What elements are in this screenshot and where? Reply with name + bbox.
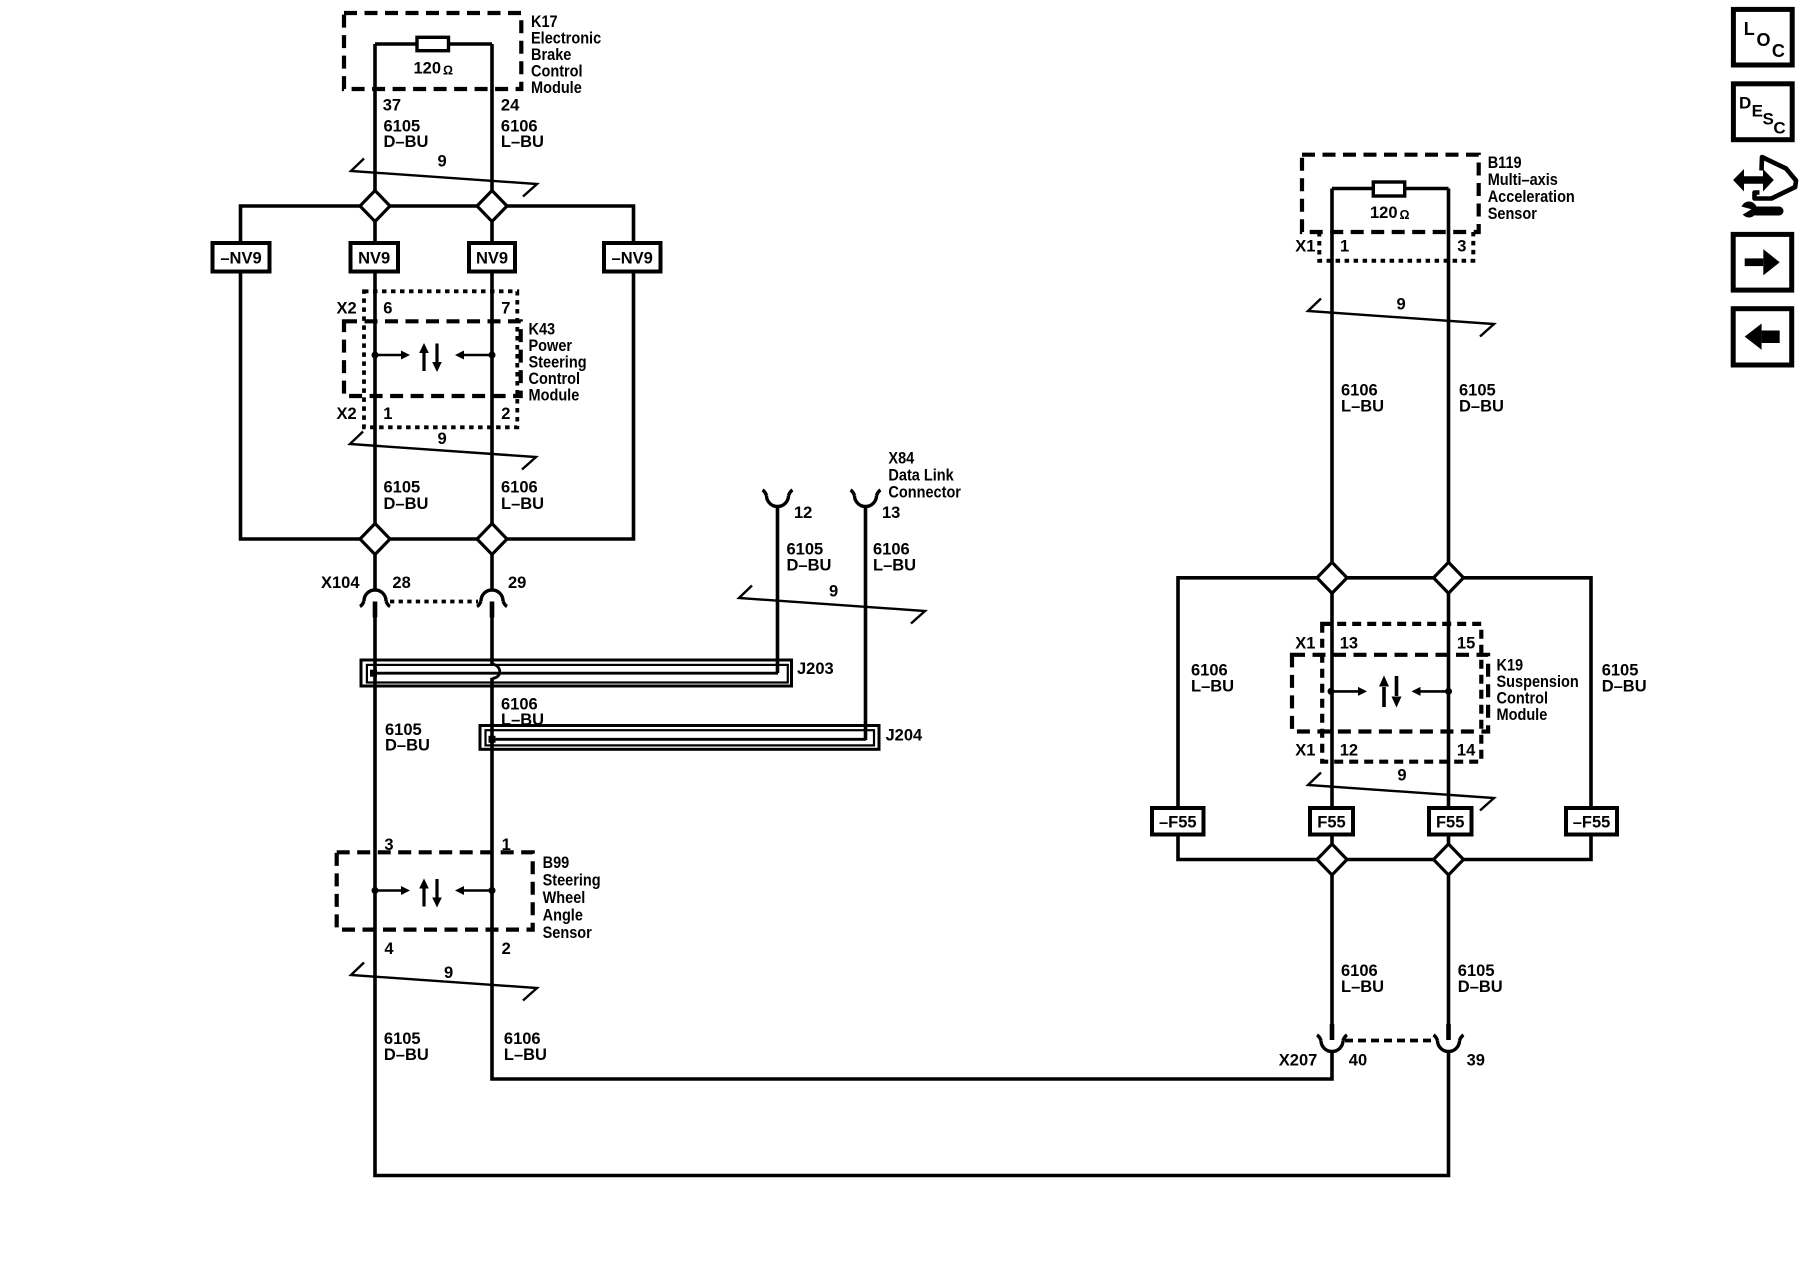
svg-text:X104: X104 (321, 574, 360, 592)
svg-text:Connector: Connector (888, 484, 961, 502)
NV9 connector boxes row (213, 243, 661, 272)
svg-text:6105: 6105 (384, 479, 421, 497)
svg-text:24: 24 (501, 96, 520, 114)
svg-text:X207: X207 (1279, 1052, 1318, 1070)
connector X104 pin28 female arc (360, 590, 507, 607)
sidebar icon vehicle with double arrow and wrench (1733, 157, 1796, 218)
svg-text:9: 9 (829, 583, 838, 601)
diamond node row1 right on 6105 (1434, 562, 1464, 593)
svg-text:D–BU: D–BU (384, 1046, 429, 1064)
svg-text:28: 28 (392, 574, 410, 592)
resistor 120ohm B119 (1373, 182, 1404, 196)
twisted pair marker TP3 (351, 963, 537, 1001)
svg-text:D–BU: D–BU (1458, 978, 1503, 996)
svg-text:Acceleration: Acceleration (1488, 188, 1575, 206)
diamond node row1 right on 6106 (1317, 562, 1347, 593)
module B119 dashed box (1302, 155, 1479, 232)
svg-text:2: 2 (502, 940, 511, 958)
svg-text:Steering: Steering (543, 872, 601, 890)
module K17 dashed box (344, 13, 521, 89)
connector X104 pin28 male pin (373, 602, 378, 618)
wire right outer loop F55 branches (1178, 578, 1591, 860)
connector X207 pin40 female arc (1317, 1035, 1464, 1052)
K43 internal arrows (372, 343, 496, 372)
sidebar icon DESC box (1733, 84, 1792, 140)
svg-text:29: 29 (508, 574, 526, 592)
svg-text:9: 9 (1397, 767, 1406, 785)
wire B119 resistor horizontal (1332, 187, 1449, 191)
svg-text:F55: F55 (1317, 814, 1345, 832)
svg-text:9: 9 (438, 430, 447, 448)
svg-text:Data Link: Data Link (888, 467, 954, 485)
svg-text:13: 13 (882, 504, 900, 522)
svg-text:D–BU: D–BU (787, 556, 832, 574)
twisted pair marker TP4 (739, 586, 925, 624)
svg-text:15: 15 (1457, 635, 1475, 653)
svg-text:37: 37 (383, 96, 401, 114)
svg-text:D–BU: D–BU (384, 133, 429, 151)
svg-text:Wheel: Wheel (543, 889, 586, 907)
svg-text:S: S (1763, 110, 1774, 129)
svg-text:D: D (1739, 94, 1751, 113)
svg-text:9: 9 (438, 153, 447, 171)
svg-text:3: 3 (384, 836, 393, 854)
svg-text:X2: X2 (337, 405, 357, 423)
connector X207 pin39 female arc (1438, 1041, 1460, 1052)
resistor 120ohm K17 (417, 37, 449, 50)
junction dot J204 on 6106 (489, 736, 496, 743)
K19 internal arrows (1328, 676, 1453, 708)
B99 internal arrows (372, 879, 496, 908)
svg-text:D–BU: D–BU (384, 495, 429, 513)
wire 6106 left vertical (490, 44, 494, 590)
svg-text:Module: Module (531, 79, 582, 97)
svg-text:Power: Power (529, 337, 573, 355)
svg-text:Control: Control (531, 63, 583, 81)
svg-text:B99: B99 (543, 854, 570, 872)
svg-text:L–BU: L–BU (501, 133, 544, 151)
svg-text:Control: Control (529, 370, 581, 388)
svg-text:9: 9 (444, 964, 453, 982)
sidebar icon LOC box (1733, 9, 1792, 65)
svg-text:Electronic: Electronic (531, 30, 601, 48)
svg-text:L–BU: L–BU (1341, 398, 1384, 416)
wire left outer loop NV9 branches (241, 206, 634, 539)
wire 6105 right vertical (1447, 189, 1451, 1025)
svg-text:–F55: –F55 (1573, 814, 1611, 832)
K17 labels (321, 13, 1647, 1069)
connector X104 pin29 male pin (490, 602, 495, 618)
svg-text:Control: Control (1497, 689, 1549, 707)
module B99 dashed box (337, 852, 533, 929)
junction dot J203 on 6105 (370, 670, 377, 677)
splice J204 (480, 726, 879, 750)
svg-text:NV9: NV9 (358, 250, 390, 268)
hop of 6106 wire over J203 bus (492, 664, 500, 678)
svg-text:6106: 6106 (501, 479, 538, 497)
wire X84 pin12 drop (776, 506, 780, 674)
wire K17 resistor horizontal (375, 42, 492, 46)
twisted pair marker TP6 (1308, 773, 1494, 811)
connector X207 pin40 male pin (1330, 1024, 1335, 1040)
svg-text:3: 3 (1457, 237, 1466, 255)
twisted pair marker TP1 (350, 159, 1494, 1001)
connector X207 pin39 male pin (1446, 1024, 1451, 1040)
module K43 dotted connector box (364, 291, 517, 427)
sidebar icon left-arrow box (1733, 309, 1792, 365)
svg-text:39: 39 (1467, 1052, 1485, 1070)
svg-text:L–BU: L–BU (1191, 678, 1234, 696)
svg-text:4: 4 (384, 940, 394, 958)
svg-text:1: 1 (383, 405, 392, 423)
diamond node row2 left on 6105 (360, 524, 390, 555)
svg-text:L: L (1744, 19, 1755, 39)
svg-text:Module: Module (1497, 706, 1548, 724)
svg-text:2: 2 (501, 405, 510, 423)
twisted pair marker TP2 (350, 432, 536, 470)
svg-text:Module: Module (529, 387, 580, 405)
svg-text:K43: K43 (529, 321, 556, 339)
svg-text:–NV9: –NV9 (612, 250, 653, 268)
svg-text:D–BU: D–BU (1602, 678, 1647, 696)
svg-text:E: E (1752, 102, 1763, 121)
diamond node row1 left on 6105 (360, 191, 1464, 876)
svg-text:9: 9 (1397, 296, 1406, 314)
svg-text:–F55: –F55 (1159, 814, 1197, 832)
diamond node row2 left on 6106 (477, 524, 507, 555)
F55 fuse boxes row (1152, 808, 1617, 835)
splice J203 (361, 660, 792, 686)
wire 6106 right vertical (1330, 189, 1334, 1025)
svg-text:Multi–axis: Multi–axis (1488, 171, 1558, 189)
svg-text:Brake: Brake (531, 46, 572, 64)
svg-text:Steering: Steering (529, 354, 587, 372)
svg-text:F55: F55 (1436, 814, 1464, 832)
svg-text:Sensor: Sensor (1488, 205, 1537, 223)
connector X1 dotted box of B119 (1319, 232, 1473, 261)
svg-text:13: 13 (1340, 635, 1358, 653)
svg-text:NV9: NV9 (476, 250, 508, 268)
svg-text:D–BU: D–BU (385, 737, 430, 755)
svg-text:12: 12 (794, 504, 812, 522)
connector X84 pin13 female arc (855, 496, 877, 507)
svg-text:L–BU: L–BU (501, 711, 544, 729)
diamond node row2 right on 6105 (1434, 844, 1464, 875)
svg-text:1: 1 (502, 836, 511, 854)
svg-text:O: O (1757, 30, 1771, 50)
svg-text:D–BU: D–BU (1459, 398, 1504, 416)
wire X84 pin13 drop (864, 506, 868, 741)
svg-text:–NV9: –NV9 (220, 250, 261, 268)
svg-text:Suspension: Suspension (1497, 673, 1579, 691)
svg-text:L–BU: L–BU (501, 495, 544, 513)
svg-text:X2: X2 (337, 300, 357, 318)
svg-text:1: 1 (1340, 237, 1349, 255)
svg-text:K19: K19 (1497, 656, 1524, 674)
X84 labels (888, 449, 961, 501)
svg-text:40: 40 (1349, 1052, 1367, 1070)
svg-text:X1: X1 (1295, 635, 1315, 653)
svg-text:J203: J203 (797, 660, 834, 678)
svg-text:X1: X1 (1295, 237, 1315, 255)
wire 6105 left vertical (241, 44, 1592, 1176)
svg-text:7: 7 (501, 300, 510, 318)
svg-text:X84: X84 (888, 449, 914, 467)
X207 mating dashed line (1345, 1039, 1436, 1043)
svg-text:K17: K17 (531, 13, 558, 31)
connector X84 pin12 female arc (763, 490, 881, 507)
svg-text:L–BU: L–BU (1341, 978, 1384, 996)
svg-text:L–BU: L–BU (504, 1046, 547, 1064)
svg-text:L–BU: L–BU (873, 556, 916, 574)
module K19 dashed box (1292, 655, 1488, 732)
connector X104 pin29 female arc (481, 590, 503, 601)
sidebar icon right-arrow box (1733, 234, 1792, 290)
svg-text:12: 12 (1340, 742, 1358, 760)
svg-text:Sensor: Sensor (543, 924, 592, 942)
twisted pair marker TP5 (1308, 299, 1494, 337)
svg-text:14: 14 (1457, 742, 1476, 760)
X104 mating dashed line (390, 600, 478, 604)
svg-text:6: 6 (383, 300, 392, 318)
svg-text:C: C (1773, 119, 1785, 138)
diamond node row1 left on 6106 (477, 191, 507, 222)
module K19 dotted connector box (1322, 624, 1481, 762)
module K43 dashed box (344, 321, 521, 396)
svg-text:J204: J204 (886, 726, 924, 744)
svg-text:Angle: Angle (543, 907, 584, 925)
svg-text:C: C (1772, 41, 1785, 61)
svg-text:B119: B119 (1488, 154, 1522, 172)
B119 labels (1488, 154, 1575, 223)
diamond node row2 right on 6106 (1317, 844, 1347, 875)
svg-text:X1: X1 (1295, 742, 1315, 760)
